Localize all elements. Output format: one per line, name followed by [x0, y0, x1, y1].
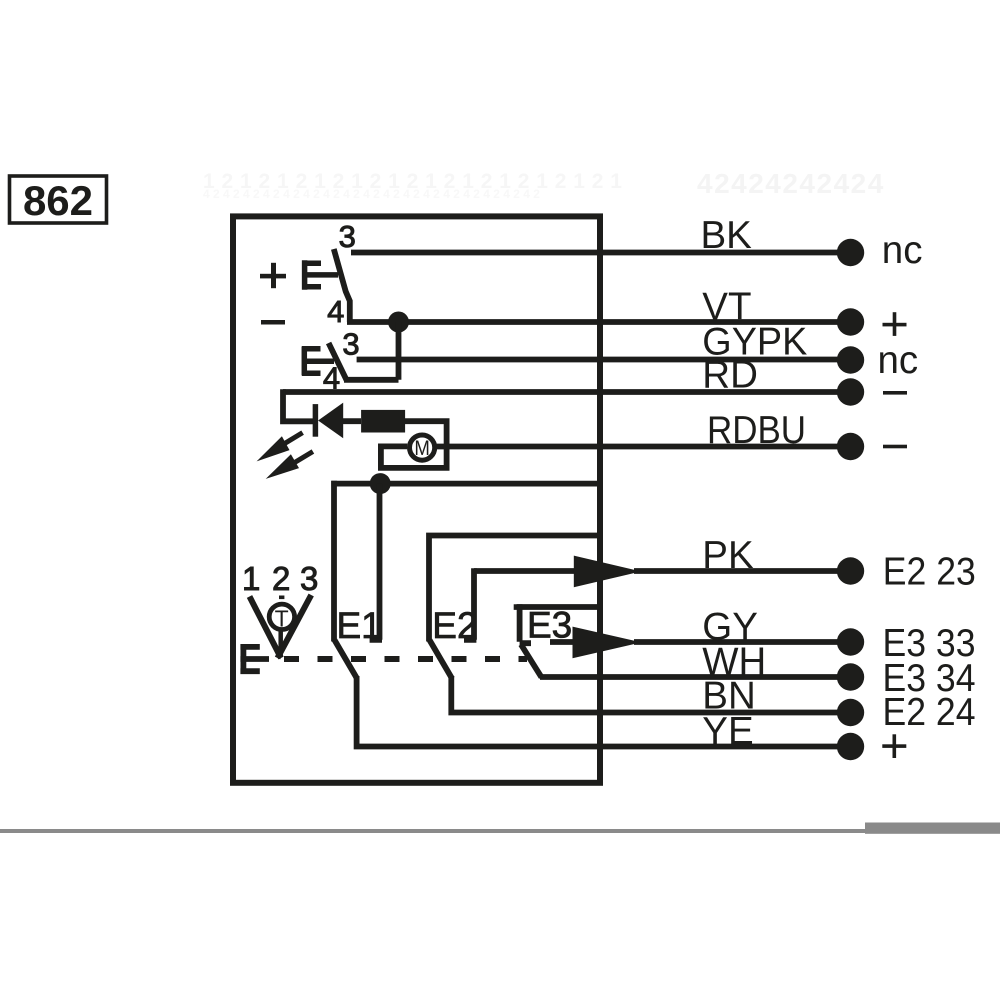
terminal label − (RDBU): [883, 445, 907, 449]
faint watermark band: [203, 168, 885, 201]
switch E2 lever: [430, 640, 453, 679]
terminal label + (YE): [882, 734, 906, 758]
LED D1 cathode bar: [313, 404, 319, 437]
wire E1 left terminal: [331, 481, 337, 642]
separator gray bar: [865, 823, 1000, 834]
svg-text:nc: nc: [882, 229, 923, 272]
terminal dot + (YE): [837, 733, 864, 760]
resistor R1: [361, 410, 405, 433]
wire corner from RD wire down to LED branch: [283, 389, 315, 421]
svg-text:T: T: [275, 606, 289, 632]
LED emission arrow lower: [266, 452, 313, 479]
polarity label − for switch S1: [261, 320, 285, 325]
svg-text:3: 3: [300, 560, 318, 597]
terminal dot − (RD): [837, 378, 864, 405]
figure number box 862: [10, 176, 107, 224]
svg-text:RDBU: RDBU: [707, 409, 806, 452]
svg-text:E2 23: E2 23: [883, 550, 976, 593]
thermal switch V actuator right arm: [278, 595, 312, 658]
junction dot B: [370, 473, 391, 494]
wire from S2 pin 4 to junction: [344, 322, 399, 380]
svg-text:1: 1: [242, 560, 260, 597]
terminal label + (VT): [883, 312, 907, 336]
svg-text:862: 862: [23, 177, 93, 224]
LED D1 triangle: [318, 403, 343, 439]
wire E2 left terminal to box edge: [429, 536, 600, 642]
wire GY feed from E3: [550, 639, 575, 645]
switch E3 lever: [521, 645, 542, 678]
wire WH from E3 lever to terminal E3 34: [540, 674, 845, 680]
svg-text:PK: PK: [702, 534, 754, 577]
thermal switch center line below circle: [278, 631, 283, 657]
thermal switch T circle: [269, 604, 294, 629]
terminal dot + (VT): [837, 308, 864, 335]
LED emission arrow upper: [257, 433, 303, 462]
wire YE from E1 lever to terminal +: [357, 676, 845, 747]
svg-text:4: 4: [327, 294, 344, 329]
switch S1 pushbutton actuator bracket: [302, 260, 338, 289]
svg-text:RD: RD: [702, 354, 758, 397]
svg-text:4 2 4 2 4 2 4 2 4 2 4 2 4 2 4: 4 2 4 2 4 2 4 2 4 2 4 2 4 2 4 2 4 2 4 2 …: [203, 187, 540, 201]
terminal dot E2 24 (BN): [837, 699, 864, 726]
svg-text:E1: E1: [337, 605, 382, 646]
terminal dot E3 33 (GY): [837, 628, 864, 655]
terminal dot E2 23 (PK): [837, 557, 864, 584]
wire BK from S1 pin 3 to terminal nc: [351, 250, 845, 256]
wire E2 fixed contact from PK wire: [464, 568, 476, 640]
svg-text:YE: YE: [702, 710, 753, 753]
junction dot on VT wire: [388, 312, 409, 333]
terminal dot nc (GYPK): [837, 346, 864, 373]
wire VT from S1 pin 4 to terminal +: [347, 319, 845, 325]
wire BN from E2 lever to terminal E2 24: [451, 676, 845, 713]
polarity label + for switch S1: [260, 263, 286, 288]
separator gray line: [0, 829, 866, 833]
wire E3 left terminal: [520, 604, 531, 643]
svg-text:3: 3: [342, 327, 359, 362]
thermal switch actuator bracket: [240, 644, 269, 674]
wire PK from arrow to terminal E2 23: [634, 568, 845, 574]
svg-text:BK: BK: [701, 214, 753, 257]
terminal label − (RD): [883, 391, 907, 395]
thermal switch V actuator left arm: [250, 597, 282, 659]
direction arrow on GY wire: [573, 627, 642, 659]
mechanical link dashed line: [284, 656, 527, 662]
svg-text:E2 24: E2 24: [883, 691, 976, 734]
svg-text:2: 2: [272, 560, 290, 597]
wire RD to terminal −: [283, 389, 845, 395]
direction arrow on PK wire: [574, 556, 641, 588]
wire PK into arrow: [474, 568, 575, 574]
thermal switch center dash: [279, 596, 284, 600]
wire E3 top terminal to box edge: [517, 604, 600, 610]
wire GYPK from S2 pin 3: [357, 357, 845, 363]
wire from junction B to box edge: [331, 481, 600, 487]
motor M1 circle: [410, 435, 435, 460]
terminal dot nc (BK): [837, 239, 864, 266]
svg-text:3: 3: [339, 219, 356, 254]
svg-text:M: M: [414, 437, 430, 460]
terminal dot − (RDBU): [837, 433, 864, 460]
enclosure box (device outline): [233, 216, 600, 782]
wire LED to resistor: [343, 418, 361, 424]
switch S2 lever (contact 3-4): [329, 343, 347, 381]
wire resistor to motor loop: [381, 421, 447, 468]
wire E1 fixed contact from junction B: [370, 484, 382, 640]
switch S1 lever (contact 3-4): [334, 249, 350, 322]
switch S2 pushbutton actuator bracket: [302, 346, 334, 375]
wire GY from arrow to terminal E3 33: [634, 639, 845, 645]
wire RDBU from motor to terminal −: [435, 444, 845, 450]
svg-text:42424242424: 42424242424: [697, 168, 885, 199]
switch E1 lever: [335, 640, 358, 679]
terminal dot E3 34 (WH): [837, 663, 864, 690]
svg-text:nc: nc: [878, 339, 919, 382]
